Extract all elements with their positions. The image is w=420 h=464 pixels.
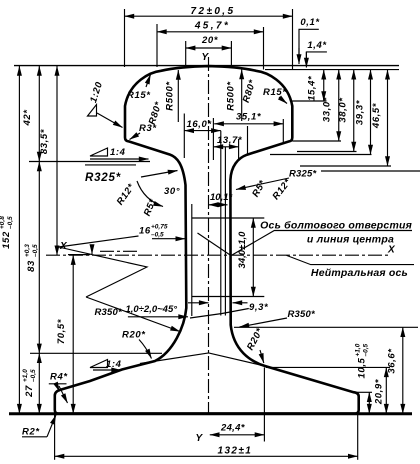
dimension 45.7 xyxy=(157,21,264,70)
svg-text:16: 16 xyxy=(139,226,151,237)
svg-text:152: 152 xyxy=(1,231,12,249)
svg-text:20,9*: 20,9* xyxy=(374,378,385,405)
svg-text:R15*: R15* xyxy=(127,90,151,101)
text neutral axis xyxy=(287,255,415,279)
svg-text:–0,5: –0,5 xyxy=(30,369,37,382)
svg-text:R325*: R325* xyxy=(289,169,318,180)
svg-text:42*: 42* xyxy=(22,109,33,127)
30 degree arc xyxy=(137,181,180,207)
svg-text:1:4: 1:4 xyxy=(106,359,122,370)
svg-text:0,1*: 0,1* xyxy=(300,17,320,28)
dimension 70.5 left xyxy=(56,255,73,413)
dimension 39.3 right xyxy=(270,70,372,155)
svg-text:X: X xyxy=(387,245,396,256)
svg-text:–0,5: –0,5 xyxy=(363,343,370,356)
svg-text:R15*: R15* xyxy=(263,87,287,98)
svg-text:R2*: R2* xyxy=(22,427,40,438)
dimension 38.0 right xyxy=(297,70,357,152)
label R500 right xyxy=(226,70,242,122)
dimension 10.1 xyxy=(209,192,234,205)
svg-text:30°: 30° xyxy=(164,186,180,197)
dimension 0.1 xyxy=(299,17,320,64)
web inner verticals xyxy=(191,204,193,316)
svg-text:R350*: R350* xyxy=(95,307,124,318)
svg-text:R500*: R500* xyxy=(226,81,237,111)
bottom reference line xyxy=(9,412,412,415)
svg-text:–0,5: –0,5 xyxy=(7,216,14,229)
svg-text:10,1*: 10,1* xyxy=(210,192,233,203)
svg-text:+1,0: +1,0 xyxy=(22,369,29,382)
dimension 36.6 right xyxy=(234,327,418,413)
svg-text:R20*: R20* xyxy=(122,330,146,341)
svg-text:39,3*: 39,3* xyxy=(355,99,366,125)
svg-text:38,0*: 38,0* xyxy=(337,97,348,123)
top reference line B xyxy=(265,69,399,71)
dimension 20 xyxy=(186,35,232,67)
svg-text:35,1*: 35,1* xyxy=(236,112,262,123)
dimension 16 web xyxy=(139,224,185,239)
dimension 42 left xyxy=(22,66,39,162)
svg-text:45,7*: 45,7* xyxy=(194,21,230,32)
svg-text:Нейтральная ось: Нейтральная ось xyxy=(311,267,408,279)
label 1.0-2.0 45deg xyxy=(126,304,189,317)
label R325 right xyxy=(236,169,420,190)
dimension 132±1 xyxy=(55,415,358,460)
svg-text:R4*: R4* xyxy=(50,372,68,383)
dimension 16.0 head xyxy=(184,114,221,159)
rail profile outline xyxy=(55,66,359,414)
dimension 33.0 right xyxy=(292,70,341,141)
zigzag leader lines xyxy=(59,236,148,297)
svg-text:+1,0: +1,0 xyxy=(355,343,362,356)
svg-text:1:4: 1:4 xyxy=(110,147,126,158)
label R20 left xyxy=(122,330,152,359)
svg-text:16,0*: 16,0* xyxy=(187,119,213,130)
svg-text:24,4*: 24,4* xyxy=(220,423,246,434)
svg-text:R350*: R350* xyxy=(288,309,317,320)
svg-text:и линия центра: и линия центра xyxy=(307,234,394,246)
dimension 42 level line xyxy=(29,161,150,163)
dimension 9.3 xyxy=(188,302,269,318)
dimension 35.1 xyxy=(214,112,283,155)
foot top construction lines xyxy=(140,353,266,366)
slope mark 1:20 xyxy=(88,80,123,127)
svg-text:132±1: 132±1 xyxy=(218,446,253,457)
dimension 1.4 xyxy=(306,40,327,68)
svg-text:+0,75: +0,75 xyxy=(151,224,168,231)
top reference line A xyxy=(14,65,399,67)
dimension 15.4 right xyxy=(292,70,326,101)
svg-text:15,4*: 15,4* xyxy=(306,75,317,101)
dimension 10.5 right xyxy=(355,343,373,413)
label R20 right xyxy=(245,326,266,363)
svg-text:27: 27 xyxy=(24,385,35,398)
label R500 left xyxy=(165,70,179,122)
dimension 46.5 right xyxy=(300,70,391,166)
svg-text:R3*: R3* xyxy=(139,123,157,134)
svg-text:83: 83 xyxy=(26,260,37,272)
svg-text:70,5*: 70,5* xyxy=(56,318,67,344)
dimension 72±0.5 xyxy=(125,6,293,70)
small arrow at X axis left xyxy=(91,246,93,254)
label R325 left xyxy=(85,171,178,185)
dimension 83.5 left xyxy=(39,66,57,255)
slope mark 1:4 left xyxy=(90,147,149,159)
svg-text:1,4*: 1,4* xyxy=(307,40,327,51)
Y axis dash-dot xyxy=(208,57,210,414)
svg-text:83,5*: 83,5* xyxy=(39,128,50,154)
svg-text:34,0±1,0: 34,0±1,0 xyxy=(237,231,248,269)
label R15 left xyxy=(127,75,151,102)
svg-text:33,0*: 33,0* xyxy=(321,96,332,122)
text axis of bolt hole xyxy=(198,220,413,256)
label R350 right xyxy=(240,309,317,327)
svg-text:Y: Y xyxy=(201,52,209,63)
svg-text:20*: 20* xyxy=(201,35,219,46)
svg-text:+0,3: +0,3 xyxy=(24,244,31,257)
slope mark 1:4 bottom xyxy=(90,359,122,370)
dimension 13.7 xyxy=(213,118,242,160)
dimension 20.9 right xyxy=(266,367,390,413)
neutral axis dash-dot left stub xyxy=(100,250,140,252)
dimension 34.0±1.0 xyxy=(237,218,253,297)
svg-text:R500*: R500* xyxy=(165,81,176,111)
label R15 right xyxy=(263,87,287,104)
svg-text:Y: Y xyxy=(195,433,203,444)
svg-text:–0,5: –0,5 xyxy=(151,232,164,239)
svg-text:72±0,5: 72±0,5 xyxy=(191,6,236,17)
label R3 left xyxy=(130,123,158,140)
svg-text:9,3*: 9,3* xyxy=(249,302,269,313)
svg-text:R325*: R325* xyxy=(85,172,121,184)
svg-text:–0,5: –0,5 xyxy=(32,244,39,257)
svg-text:46,5*: 46,5* xyxy=(371,102,382,129)
svg-text:+0,8: +0,8 xyxy=(0,216,6,229)
bolt hole section lines xyxy=(192,217,264,219)
dimension 83 left xyxy=(24,162,39,354)
svg-text:36,6*: 36,6* xyxy=(387,348,398,374)
svg-text:1,0÷2,0~45°: 1,0÷2,0~45° xyxy=(126,304,178,315)
X bolt axis dash-dot xyxy=(46,254,390,256)
label R2 xyxy=(22,415,56,438)
dimension 27 left xyxy=(22,353,39,413)
27 level line xyxy=(30,352,162,354)
label R4 xyxy=(49,372,69,404)
dimension 24.4 xyxy=(210,368,265,442)
svg-text:Ось болтового отверстия: Ось болтового отверстия xyxy=(260,220,412,232)
dimension 152 left xyxy=(0,66,19,414)
